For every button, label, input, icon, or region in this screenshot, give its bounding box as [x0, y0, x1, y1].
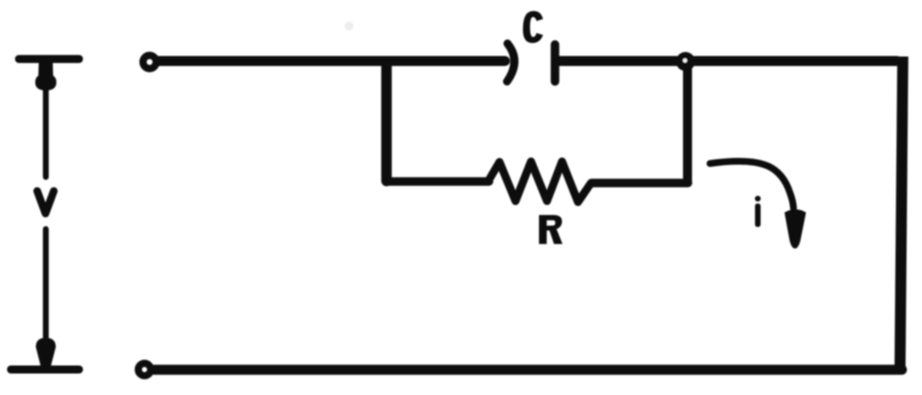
capacitor C left plate	[507, 44, 514, 82]
current arrow i curve	[710, 161, 794, 208]
label R	[539, 215, 563, 244]
voltage arrow up arrowhead	[36, 63, 56, 90]
wire left branch vertical	[381, 62, 392, 181]
current arrow i head	[785, 209, 807, 248]
voltage arrow bottom bar	[11, 366, 79, 374]
capacitor C right plate	[551, 45, 560, 82]
voltage arrow lower shaft	[43, 229, 49, 337]
label i dot	[755, 196, 761, 202]
label C	[523, 11, 543, 43]
voltage arrow top bar	[19, 55, 79, 63]
voltage arrow upper shaft	[43, 88, 49, 177]
label i stem	[755, 204, 761, 228]
voltage arrow down arrowhead	[37, 338, 55, 365]
wire right side vertical	[900, 57, 903, 370]
node junction hole	[683, 58, 687, 62]
wire bottom	[154, 365, 902, 375]
terminal top-left	[143, 55, 156, 68]
paper smudge	[345, 22, 354, 31]
wire resistor right horizontal	[592, 179, 689, 188]
label V	[37, 191, 54, 214]
resistor R zigzag	[488, 162, 591, 203]
node junction dot	[676, 52, 695, 71]
wire top-right segment	[559, 56, 897, 66]
terminal bottom-left	[138, 363, 150, 375]
wire resistor left horizontal	[386, 177, 489, 186]
wire top-left segment	[158, 56, 505, 66]
wire right branch vertical	[683, 63, 692, 182]
